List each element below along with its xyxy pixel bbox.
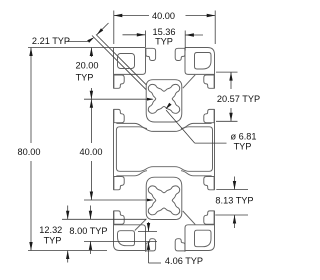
svg-text:TYP: TYP (44, 236, 62, 246)
dim 20.00 TYP left (28, 47, 113, 49)
svg-text:2.21 TYP: 2.21 TYP (32, 36, 70, 46)
left slot lip voids (114, 211, 124, 224)
svg-text:8.00 TYP: 8.00 TYP (69, 226, 107, 236)
web wall NE (183, 75, 195, 88)
right slot cavity ceiling + bottom slot right wall (185, 225, 215, 252)
corner chamber top-right (195, 53, 212, 70)
extension to X-bore slot2 center (84, 199, 153, 201)
top slot lip voids (146, 48, 156, 60)
X-bore top (148, 84, 179, 113)
svg-text:20.00: 20.00 (76, 60, 99, 70)
svg-text:TYP: TYP (155, 37, 173, 47)
dim 40.00 top (113, 11, 115, 45)
left slot cavity ceiling + bottom slot left wall (114, 225, 146, 252)
bottom edge extension (28, 250, 107, 252)
dim 4.06 TYP (138, 231, 157, 233)
bottom half (mirrored interior) (114, 171, 215, 252)
dim 80.00 left (30, 48, 32, 144)
right slot cavity floor (181, 123, 212, 128)
web wall SW bottom-left (135, 219, 147, 231)
svg-text:ø 6.81: ø 6.81 (230, 132, 256, 142)
svg-text:80.00: 80.00 (18, 147, 41, 157)
svg-text:8.13 TYP: 8.13 TYP (215, 196, 253, 206)
center boss around X-bore (146, 80, 182, 122)
dim 12.32 TYP (62, 218, 146, 220)
right slot cavity ceiling + top slot right wall (185, 48, 215, 75)
svg-text:40.00: 40.00 (152, 11, 175, 21)
svg-text:40.00: 40.00 (80, 147, 103, 157)
web wall SE(m) (183, 211, 195, 224)
svg-text:4.06 TYP: 4.06 TYP (165, 256, 203, 266)
profile outer boundary (114, 48, 215, 251)
callout dia 6.81 TYP (166, 110, 195, 143)
center boss around X-bore (146, 177, 182, 219)
central hollow (116, 127, 212, 172)
right slot lip voids (204, 75, 214, 88)
right slot lip voids (204, 211, 214, 224)
left slot cavity ceiling + top slot left wall (114, 48, 146, 75)
svg-text:20.57 TYP: 20.57 TYP (217, 94, 260, 104)
right slot cavity floor (181, 171, 212, 176)
dim 8.13 TYP right (216, 189, 248, 191)
left slot cavity floor (116, 123, 147, 128)
corner chamber bottom-right (195, 230, 212, 247)
corner chamber bottom-left (118, 231, 135, 246)
left slot cavity floor (116, 171, 147, 176)
dim 20.57 TYP right (216, 71, 238, 73)
extension to X-bore slot1 center (84, 98, 153, 100)
dim 15.36 TYP top (145, 31, 147, 48)
dim 40.00 left (slot centers) (90, 99, 92, 143)
svg-text:12.32: 12.32 (39, 225, 62, 235)
left slot lip voids (114, 75, 124, 88)
web wall NW / 2.21 extension pair (top only) (96, 35, 146, 85)
X-bore bottom (148, 186, 179, 215)
corner chamber top-left (118, 54, 135, 69)
dim 8.00 TYP (84, 240, 157, 242)
svg-text:TYP: TYP (76, 72, 94, 82)
svg-text:TYP: TYP (234, 142, 252, 152)
bottom slot lip voids (146, 239, 156, 251)
